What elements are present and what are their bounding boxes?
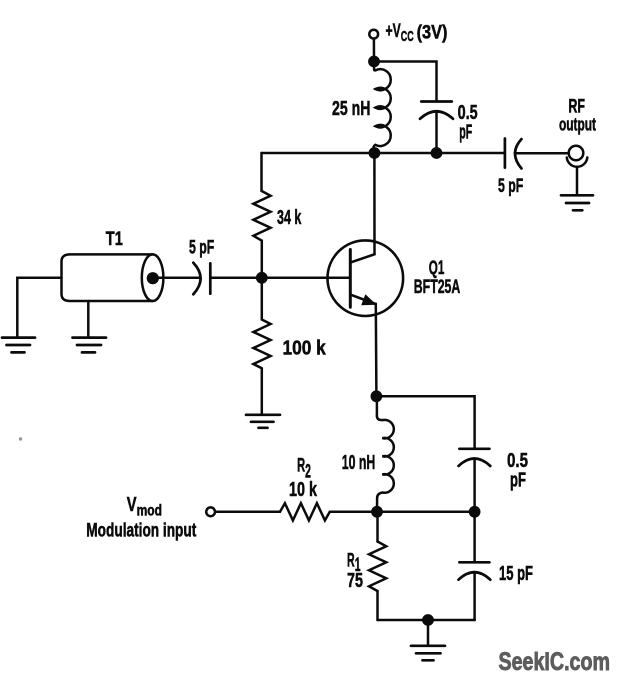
resonator T1 body <box>62 254 153 301</box>
wire emitter to emitter node <box>375 304 378 397</box>
resistor R1 75 <box>369 542 386 592</box>
svg-text:5 pF: 5 pF <box>189 238 214 259</box>
label R2 <box>297 456 311 483</box>
terminal RF output lower arc <box>567 158 588 167</box>
inductor L 10 nH <box>377 416 394 512</box>
ground below R 100k <box>246 415 280 428</box>
resistor R2 10 k <box>280 503 330 520</box>
node base junction dot <box>256 272 268 284</box>
wire C1 to rail <box>435 111 438 153</box>
label 0.5 pF bottom <box>507 449 528 492</box>
svg-text:SeekIC.com: SeekIC.com <box>499 648 611 676</box>
capacitor C1 0.5 pF top : curved plate <box>420 111 453 119</box>
wire collector to rail <box>373 153 376 254</box>
svg-text:pF: pF <box>510 470 526 492</box>
wire R 34k to base node <box>261 241 264 278</box>
node emitter junction dot <box>371 390 383 402</box>
ground T1 left <box>2 338 35 353</box>
svg-text:output: output <box>559 114 596 134</box>
transistor Q1 emitter arrow <box>361 294 376 305</box>
wire C4 to C4 node <box>473 459 476 512</box>
node collector junction dot <box>369 147 381 159</box>
wire main rail <box>262 152 505 155</box>
svg-text:5 pF: 5 pF <box>498 176 523 197</box>
node C4 junction dot <box>469 506 481 518</box>
resistor R 34k <box>253 191 270 241</box>
node VCC junction dot <box>368 56 380 68</box>
svg-text:V: V <box>127 494 137 516</box>
wire T1 dot to C3 <box>153 277 200 280</box>
node modulation junction dot <box>371 506 383 518</box>
label Vmod <box>127 494 162 520</box>
transistor Q1 circle <box>328 240 404 316</box>
wire rail to R 34k <box>260 153 263 191</box>
wire modulation node to C4 node <box>377 511 475 514</box>
wire bottom ground stub <box>427 620 430 645</box>
node T1 output dot <box>147 272 159 284</box>
capacitor C5 15 pF : straight plate <box>459 561 489 564</box>
svg-text:15 pF: 15 pF <box>499 563 533 585</box>
wire Vmod terminal to R2 <box>215 511 280 514</box>
label RF output <box>559 96 596 135</box>
capacitor C1 0.5 pF top : straight plate <box>421 100 452 103</box>
wire bottom rail <box>378 619 475 622</box>
transistor Q1 base bar <box>349 250 352 308</box>
wire C5 to bottom rail <box>473 572 476 620</box>
capacitor C3 5 pF input : straight plate <box>209 263 212 293</box>
ground RF output <box>561 195 593 210</box>
wire R1 to bottom rail <box>376 591 379 620</box>
wire R 100k to ground <box>261 368 264 414</box>
wire T1 bottom lead <box>87 301 90 337</box>
wire C2 to RF terminal <box>515 152 569 155</box>
svg-text:10 nH: 10 nH <box>342 452 376 474</box>
svg-text:BFT25A: BFT25A <box>414 276 461 298</box>
node C1 rail junction dot <box>431 147 443 159</box>
terminal +VCC <box>369 30 378 39</box>
svg-text:R: R <box>297 456 305 477</box>
wire T1 left lead <box>17 278 61 337</box>
capacitor C3 5 pF input : curved plate <box>193 263 200 295</box>
label R1 <box>347 550 361 576</box>
wire VCC stem <box>373 39 376 62</box>
capacitor C2 5 pF output : straight plate <box>504 139 507 168</box>
capacitor C5 15 pF : curved plate <box>459 572 491 580</box>
svg-text:10 k: 10 k <box>289 479 318 501</box>
svg-text:+V: +V <box>386 21 401 42</box>
speck artifact <box>19 437 22 440</box>
svg-text:(3V): (3V) <box>417 23 448 44</box>
wire C3 to base node <box>210 277 261 280</box>
transistor Q1 emitter diagonal <box>351 295 375 304</box>
inductor L 25 nH <box>374 68 391 153</box>
resistor R 100k <box>253 320 270 369</box>
svg-text:34 k: 34 k <box>277 206 302 229</box>
terminal Vmod input <box>206 507 215 516</box>
terminal RF output <box>569 146 584 161</box>
resonator T1 end ellipse <box>142 254 164 301</box>
svg-text:T1: T1 <box>106 229 123 250</box>
label +VCC (3V) <box>386 21 448 45</box>
wire emitter node to L 10 nH <box>376 396 379 416</box>
svg-text:75: 75 <box>347 569 363 592</box>
svg-text:mod: mod <box>137 503 162 520</box>
svg-text:Modulation input: Modulation input <box>86 520 196 541</box>
wire R2 to modulation node <box>330 511 377 514</box>
wire C4 node to C5 <box>473 512 476 562</box>
svg-text:100 k: 100 k <box>283 337 327 360</box>
capacitor C2 5 pF output : curved plate <box>515 139 522 169</box>
wire base node to R 100k <box>261 278 264 320</box>
node bottom rail junction dot <box>422 614 434 626</box>
wire RF ground stub <box>576 167 579 195</box>
capacitor C4 0.5 pF : curved plate <box>459 459 491 467</box>
wire emitter node to C4 branch <box>376 396 474 448</box>
wire VCC node to C1 branch <box>374 62 437 102</box>
svg-text:25 nH: 25 nH <box>332 98 370 120</box>
ground bottom <box>411 646 445 661</box>
wire modulation node to R1 <box>376 512 379 542</box>
svg-text:pF: pF <box>459 122 472 144</box>
capacitor C4 0.5 pF : straight plate <box>459 447 489 450</box>
ground T1 bottom <box>73 338 107 353</box>
svg-text:CC: CC <box>401 29 414 45</box>
wire base node to Q1 base <box>262 277 351 280</box>
label 0.5 pF top <box>458 101 478 144</box>
transistor Q1 collector diagonal <box>351 254 375 262</box>
